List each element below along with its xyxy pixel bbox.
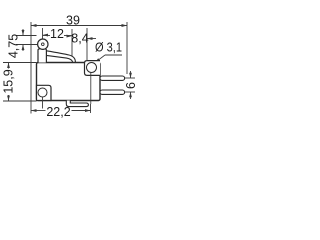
extension line lever top horizontal — [16, 35, 37, 37]
arrowhead 4,75 bottom pointing up — [22, 45, 25, 51]
svg-text:Ø 3,1: Ø 3,1 — [95, 41, 122, 55]
centerline mounting hole top right — [90, 73, 92, 105]
mounting hole bottom left — [38, 88, 47, 97]
extension line roller center vertical — [42, 28, 44, 39]
arrowhead 15,9 top pointing up — [7, 63, 10, 69]
dimension line 15,9 lower segment — [8, 95, 10, 101]
extension line pin1 center tick — [125, 77, 136, 79]
lever top line — [46, 51, 75, 62]
arrowhead 6 bottom pointing up — [129, 92, 132, 97]
arrowhead 6 top pointing down — [129, 73, 132, 78]
dimension line 22,2 right segment — [72, 110, 91, 112]
svg-text:22,2: 22,2 — [46, 105, 70, 119]
dimension line 4,75 lower arrow tail — [22, 45, 24, 52]
svg-text:15,9: 15,9 — [2, 69, 16, 93]
arrowhead leader 3,1 — [95, 58, 100, 63]
terminal pin 2 — [100, 90, 125, 94]
extension line lever tip vertical — [71, 29, 73, 56]
extension line left datum — [30, 22, 32, 114]
arrowhead 15,9 bottom pointing down — [7, 96, 10, 102]
roller — [38, 39, 48, 49]
dimension line 4,75 upper arrow tail — [22, 29, 24, 36]
mounting boss top right — [85, 61, 101, 76]
extension line hole center vertical — [86, 28, 88, 60]
arrowhead 4,75 top pointing down — [22, 30, 25, 36]
dimension line 22,2 left segment — [31, 110, 46, 112]
arrowhead 12 right — [67, 35, 73, 38]
extension line roller center horizontal — [16, 44, 37, 46]
arrowhead 12 left — [43, 34, 49, 37]
arrowhead 39 right — [122, 24, 128, 27]
arrowhead 39 left — [31, 24, 37, 27]
svg-text:6: 6 — [124, 82, 138, 89]
svg-text:4,75: 4,75 — [7, 34, 21, 58]
extension line pin2 center tick — [125, 91, 136, 93]
dimension line 6 lower arrow tail — [130, 92, 132, 99]
lever bottom line — [46, 55, 72, 62]
leader line diameter 3,1 underline — [105, 54, 122, 56]
svg-text:39: 39 — [66, 14, 80, 28]
arrowhead 22,2 right — [85, 109, 91, 112]
svg-text:8,4: 8,4 — [71, 32, 88, 46]
svg-text:12: 12 — [50, 27, 64, 41]
dimension line 39 — [31, 25, 127, 27]
extension line right datum — [126, 22, 128, 74]
dimension line 8,4 right outside segment — [87, 38, 96, 40]
mounting hole top right — [87, 63, 97, 73]
extension line body bottom horizontal — [3, 100, 37, 102]
roller center mark — [42, 43, 45, 46]
centerline mounting hole bottom — [42, 97, 44, 109]
dimension line 12 left segment — [43, 35, 51, 37]
leader line diameter 3,1 diagonal — [97, 55, 105, 61]
dimension line 6 upper arrow tail — [130, 71, 132, 78]
mounting boss bottom left — [37, 85, 52, 100]
terminal pin bottom bent — [66, 101, 88, 107]
lever hinge bracket — [38, 49, 46, 63]
extension line body top horizontal — [3, 62, 37, 64]
switch body outline — [37, 63, 101, 101]
dimension line 12 right segment — [64, 35, 72, 37]
arrowhead 22,2 left — [31, 109, 37, 112]
dimension line 15,9 upper segment — [8, 63, 10, 69]
arrowhead 8,4 right outside — [87, 37, 93, 40]
extension line bottom pin end vertical — [90, 104, 92, 113]
terminal pin 1 — [100, 76, 125, 80]
